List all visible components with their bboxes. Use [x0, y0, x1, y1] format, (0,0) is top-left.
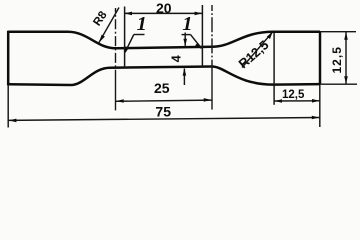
ext line 12,5 right bottom	[320, 83, 357, 85]
svg-text:1: 1	[137, 13, 147, 35]
dimension 12,5 bottom left arrow	[274, 99, 282, 103]
leader 1 right diagonal	[191, 35, 201, 48]
leader 1 left underline	[134, 34, 145, 36]
dimension 25 line	[116, 100, 212, 101]
svg-text:1: 1	[182, 13, 192, 35]
svg-text:4: 4	[170, 55, 184, 62]
dimension 20 left arrow	[124, 12, 132, 16]
dimension 12,5 bottom right arrow	[312, 99, 320, 103]
leader 1 right arrowhead	[195, 43, 202, 49]
dimension 4 bottom arrowhead	[183, 68, 187, 75]
dimension 20 line	[125, 12, 203, 14]
specimen right edge	[319, 32, 322, 85]
ext line 12,5 bottom left	[273, 33, 275, 105]
dimension 75 left arrow	[9, 119, 17, 123]
leader 1 left diagonal	[125, 35, 134, 53]
dimension 12,5 bottom line	[274, 100, 320, 102]
dimension 25 right arrow	[204, 98, 212, 102]
dimension 4 top arrowhead	[183, 39, 187, 46]
dimension 75 line	[9, 118, 320, 121]
dimension 12,5 right line	[345, 32, 347, 84]
dimension 12,5 right bottom arrow	[344, 76, 348, 84]
specimen outline bottom	[8, 67, 320, 86]
dimension 75 right arrow	[312, 116, 320, 120]
leader 1 left arrowhead	[124, 46, 129, 54]
gauge mark line right (1)	[201, 5, 203, 67]
svg-text:20: 20	[156, 0, 172, 16]
dimension 4 bottom arrow shaft	[183, 69, 185, 86]
centerline dash-dot right	[211, 5, 213, 72]
centerline ext left to 25-dim	[115, 72, 117, 110]
svg-text:75: 75	[155, 103, 171, 119]
leader R8 line	[99, 8, 119, 43]
dimension 25 left arrow	[116, 99, 124, 103]
leader R8 arrowhead	[99, 35, 105, 43]
specimen outline top (dog-bone tensile test bar)	[8, 32, 320, 49]
ext line right shared 75/12.5	[319, 85, 321, 127]
dimension 12,5 right top arrow	[344, 32, 348, 40]
svg-text:12,5: 12,5	[330, 46, 344, 73]
gauge mark line left (1)	[124, 7, 126, 69]
dimension 4 top arrow shaft	[184, 33, 186, 46]
leader 1 right underline	[182, 34, 191, 36]
leader R12,5 arrowhead	[267, 32, 273, 39]
dimension 20 right arrow	[195, 12, 203, 16]
leader R12,5 line	[242, 33, 272, 68]
centerline ext right to 25-dim	[211, 72, 213, 110]
svg-text:12,5: 12,5	[282, 89, 305, 101]
ext line 75 left	[7, 85, 9, 128]
svg-text:25: 25	[154, 80, 170, 96]
ext line 12,5 right top	[320, 31, 356, 33]
specimen left edge	[7, 31, 10, 86]
centerline dash-dot left	[115, 8, 117, 72]
